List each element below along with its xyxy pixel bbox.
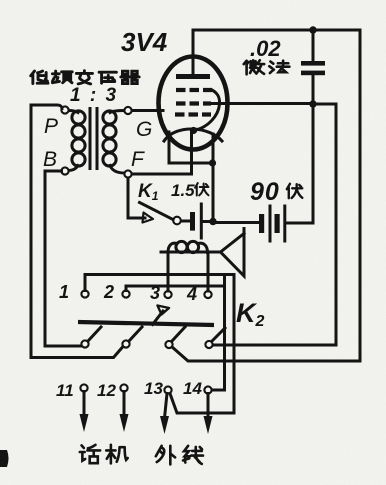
wire: plate top lead to top rail and outer right loop down to K2 row [172, 30, 361, 361]
switch K2 blade 3 [172, 327, 185, 341]
arrow terminal 11 [83, 392, 86, 418]
svg-text:B: B [43, 148, 57, 171]
switch K2 bar [78, 322, 214, 325]
wire: plate lead into tube [192, 30, 195, 76]
svg-text:1 : 3: 1 : 3 [70, 85, 118, 106]
wire: filament left leg [168, 132, 171, 163]
node: top junction [309, 26, 316, 33]
transformer T1 core [90, 107, 97, 170]
svg-text:K2: K2 [236, 298, 265, 330]
arrow terminal 13 [165, 394, 168, 419]
svg-text:4: 4 [186, 284, 197, 304]
wire: P terminal to left rail down to K2 contact 2 [31, 105, 123, 358]
switch K2 blade 1 [88, 327, 101, 341]
wire: riser joining terminal 14 [212, 277, 225, 390]
tube V1 grid g1 [175, 112, 211, 116]
terminal 14 [204, 386, 211, 393]
svg-text:14: 14 [183, 379, 202, 398]
node: filament tie junction [209, 159, 216, 166]
transformer T1 primary winding [69, 111, 86, 171]
svg-text:F: F [131, 148, 145, 171]
wire: F terminal to filament centre tap [132, 173, 192, 176]
wire: junction down to 90V battery positive [287, 104, 313, 223]
label 微法 microfarad [244, 60, 290, 74]
battery B1 1.5V cells [190, 212, 195, 231]
svg-text:1.5: 1.5 [171, 181, 195, 200]
terminal 13 [164, 386, 171, 393]
switch K2 contact 3 [165, 341, 172, 348]
terminal 3 [164, 291, 171, 298]
wire: screen grid to junction [211, 102, 313, 105]
terminal 2 [122, 290, 129, 297]
svg-text:3: 3 [150, 283, 160, 303]
wire: filament right leg down to battery junction [212, 134, 215, 221]
terminal P [61, 106, 68, 113]
svg-text:11: 11 [56, 381, 74, 400]
battery B2 90V cells [259, 214, 264, 233]
wire: coil right to terminal 4 [207, 252, 210, 291]
svg-text:1: 1 [59, 282, 69, 302]
tube V1 filament [164, 129, 222, 141]
tube V1 suppressor tie to filament [194, 90, 220, 131]
label 伏 of 90伏 [287, 184, 302, 198]
switch K1 fixed contact [173, 217, 181, 225]
wire: 90V battery negative to filament node [213, 221, 259, 224]
node: screen junction [309, 100, 316, 107]
svg-text:2: 2 [103, 282, 114, 302]
label 话机 telephone set [80, 445, 128, 464]
switch K2 blade 2 [129, 327, 142, 341]
svg-text:.02: .02 [250, 36, 281, 61]
wire: F terminal down to K1 [128, 178, 145, 219]
tube V1 grid g3 [176, 88, 212, 92]
svg-text:P: P [44, 115, 58, 138]
svg-text:K1: K1 [138, 181, 159, 203]
wire: filament centre leg [190, 131, 193, 174]
earphone coil loops [168, 241, 208, 252]
transformer T1 secondary winding [103, 111, 125, 174]
switch K2 contact 1 [81, 340, 88, 347]
tube V1 plate [176, 74, 210, 79]
label 伏 of 1.5伏 [195, 183, 208, 195]
terminal 1 [81, 290, 88, 297]
tube V1 3V4 envelope [159, 57, 228, 150]
wire: grid lead from G terminal [132, 109, 164, 112]
arrow terminal 14 [207, 394, 210, 419]
wire: junction right then down to K2 contact 4 [213, 104, 337, 345]
capacitor C1 lead bottom [312, 75, 315, 104]
terminal 12 [120, 384, 127, 391]
svg-text:12: 12 [97, 381, 116, 400]
earphone coil base [161, 251, 220, 254]
capacitor C1 lead top [312, 30, 315, 62]
capacitor C1 plates .02uF [301, 61, 325, 66]
terminal 4 [204, 291, 211, 298]
label 低频变压器 low-frequency transformer [31, 71, 139, 84]
switch K2 actuator arrow [153, 311, 164, 325]
svg-text:90: 90 [250, 178, 280, 206]
wire: 1.5V battery to K1 contact [181, 220, 189, 223]
terminal F [124, 170, 131, 177]
wire: filament tie bar [169, 162, 213, 165]
node: battery/filament junction [209, 218, 216, 225]
stray print mark bottom-left [0, 450, 9, 467]
switch K2 contact 2 [122, 340, 129, 347]
terminal 11 [80, 384, 87, 391]
switch K1 blade [140, 203, 174, 220]
label 外线 outside line [156, 446, 203, 465]
wire: 1.5V battery to junction [203, 220, 210, 223]
node: filament centre tap [190, 127, 197, 134]
svg-text:G: G [136, 118, 152, 141]
arrow terminal 12 [123, 392, 126, 418]
switch K1 arrow terminal [143, 213, 154, 223]
svg-text:13: 13 [144, 379, 163, 398]
wire: B terminal down to K2 contact 1 [45, 171, 81, 346]
wire: coil left to terminal 3 [167, 252, 170, 291]
wire: terminal 1 up and right down to terminal 13 line [85, 275, 234, 414]
wire: terminal 2 to K2 contact3 net riser [126, 286, 225, 291]
tube V1 grid g2 [176, 101, 211, 105]
terminal G [124, 107, 131, 114]
earphone horn [221, 229, 245, 277]
terminal B [61, 167, 68, 174]
switch K2 blade 4 [212, 328, 225, 341]
switch K2 contact 4 [205, 341, 212, 348]
svg-text:3V4: 3V4 [121, 27, 168, 57]
